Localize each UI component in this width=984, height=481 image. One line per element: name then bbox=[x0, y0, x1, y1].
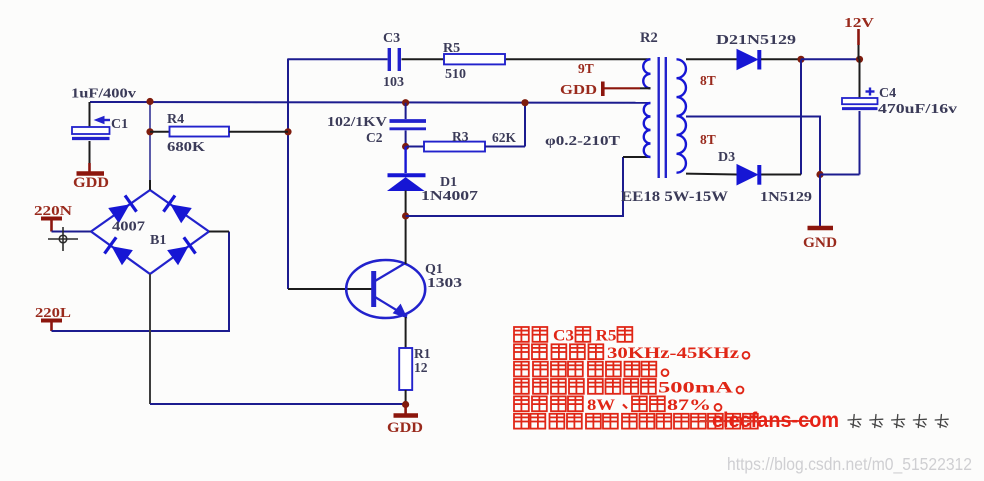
wire top rail R5 to transformer bbox=[505, 58, 650, 60]
svg-text:D21N5129: D21N5129 bbox=[716, 33, 796, 48]
svg-text:470uF/16v: 470uF/16v bbox=[878, 102, 957, 117]
port 220N stem bbox=[50, 220, 53, 232]
ground GDD tap wire bbox=[604, 87, 640, 89]
svg-text:220N: 220N bbox=[34, 203, 72, 218]
svg-text:500mA: 500mA bbox=[658, 380, 734, 397]
resistor R1 body bbox=[399, 348, 412, 390]
note line2 bbox=[514, 344, 529, 359]
node dot C2 top bbox=[402, 99, 409, 106]
capacitor C3 plate left bbox=[388, 48, 391, 71]
svg-text:R5: R5 bbox=[443, 41, 460, 56]
wire D3 out to tie bbox=[761, 174, 801, 176]
transformer core line left bbox=[658, 57, 660, 178]
ground GDD Q1 bar bbox=[394, 413, 419, 418]
transistor Q1 collector diag bbox=[375, 264, 405, 282]
resistor R4 wire right bbox=[229, 131, 288, 133]
wire top node to bridge bbox=[149, 101, 151, 190]
svg-text:C4: C4 bbox=[879, 86, 896, 101]
svg-text:B1: B1 bbox=[150, 233, 166, 248]
svg-text:9T: 9T bbox=[578, 61, 594, 76]
transistor Q1 base bar bbox=[371, 271, 376, 307]
node dot R4 right bbox=[284, 128, 291, 135]
svg-text:GDD: GDD bbox=[73, 175, 109, 191]
svg-text:30KHz-45KHz: 30KHz-45KHz bbox=[607, 345, 739, 362]
diode D1 wire top bbox=[404, 147, 406, 174]
wire top rail left bbox=[288, 58, 388, 60]
note line3 bbox=[514, 362, 529, 377]
bridge diode D bottom-left bbox=[112, 247, 132, 264]
note line5 bbox=[514, 396, 529, 411]
wire gnd drop bbox=[819, 175, 821, 228]
transformer primary winding lower bbox=[644, 103, 651, 157]
wire 12V rail bbox=[801, 58, 860, 60]
wire C2 to D1 node bbox=[405, 131, 407, 147]
node dot bottom bbox=[402, 401, 409, 408]
wire top rail C3-R5 bbox=[402, 58, 445, 60]
node dot R3 left bbox=[402, 143, 409, 150]
node dot R3 top bbox=[521, 99, 528, 106]
capacitor C1 stub top bbox=[89, 102, 91, 127]
diode D1 triangle bbox=[389, 178, 424, 191]
node dot D1 bottom bbox=[402, 212, 409, 219]
svg-text:87%: 87% bbox=[667, 397, 711, 414]
wire bottom rail bbox=[150, 403, 406, 405]
capacitor C3 plate right bbox=[398, 48, 401, 71]
diode D3 triangle bbox=[737, 165, 758, 185]
capacitor C4 polarity bbox=[866, 90, 875, 92]
wire 12V to node bbox=[858, 45, 860, 59]
wire cathode tie vertical bbox=[800, 59, 802, 174]
svg-text:Q1: Q1 bbox=[425, 262, 443, 277]
resistor R5 body bbox=[444, 54, 505, 64]
svg-text:GND: GND bbox=[803, 235, 837, 251]
svg-text:8T: 8T bbox=[700, 73, 716, 88]
svg-text:elecfans-com: elecfans-com bbox=[712, 408, 839, 432]
capacitor C2 plate bottom bbox=[390, 127, 427, 130]
wire bridge bottom drop bbox=[149, 274, 151, 404]
svg-text:510: 510 bbox=[445, 67, 466, 82]
svg-text:103: 103 bbox=[383, 75, 404, 90]
transistor Q1 emitter arrow bbox=[394, 305, 407, 318]
capacitor C1 plate- bbox=[72, 137, 110, 140]
bridge diode D top-right bbox=[171, 205, 191, 222]
capacitor C4 wire top bbox=[859, 59, 861, 98]
wire primary bottom stub bbox=[623, 156, 650, 158]
diode D3 cathode bar bbox=[757, 165, 761, 185]
wire 220L run bbox=[52, 232, 230, 332]
wire mid rail C1 to transformer bbox=[90, 101, 650, 104]
wire 220N to bridge bbox=[52, 231, 92, 233]
cursor crosshair bbox=[48, 238, 78, 240]
resistor R4 wire left bbox=[150, 131, 170, 133]
svg-text:C3: C3 bbox=[553, 328, 574, 345]
svg-text:https://blog.csdn.net/m0_51522: https://blog.csdn.net/m0_51522312 bbox=[727, 454, 972, 475]
svg-text:62K: 62K bbox=[492, 130, 517, 145]
capacitor C2 plate top bbox=[390, 119, 427, 123]
diode D2 cathode bar bbox=[757, 50, 761, 70]
resistor R3 body bbox=[424, 142, 485, 152]
svg-text:R5: R5 bbox=[596, 328, 617, 345]
resistor R3 vertical bbox=[524, 103, 526, 147]
ground GDD Q1 stem bbox=[404, 405, 407, 415]
capacitor C4 plate- bbox=[842, 107, 878, 110]
wire secondary top to D2 bbox=[686, 58, 737, 60]
node dot R4 left bbox=[146, 128, 153, 135]
svg-text:220L: 220L bbox=[35, 305, 71, 320]
wire Q1 collector up bbox=[405, 216, 407, 264]
node dot D2 out bbox=[797, 56, 804, 63]
wire C4 bottom run bbox=[820, 174, 860, 176]
svg-text:4007: 4007 bbox=[112, 220, 145, 235]
note line6 bbox=[514, 414, 529, 429]
wire secondary bottom to D3 bbox=[686, 173, 737, 176]
ground GND bar bbox=[808, 226, 834, 231]
bridge B1 outline bbox=[91, 190, 209, 274]
node dot center tap bbox=[816, 171, 823, 178]
resistor R4 body bbox=[170, 127, 230, 137]
capacitor C4 wire bottom bbox=[859, 111, 861, 175]
svg-text:C3: C3 bbox=[383, 31, 400, 46]
svg-text:GDD: GDD bbox=[387, 420, 423, 436]
wire bridge top stub bbox=[149, 180, 151, 190]
svg-text:φ0.2-210T: φ0.2-210T bbox=[545, 133, 620, 148]
transistor Q1 emitter diag bbox=[375, 297, 407, 317]
node dot C4 top bbox=[856, 56, 863, 63]
port 220L stem bbox=[50, 322, 53, 331]
svg-text:8T: 8T bbox=[700, 132, 716, 147]
resistor R3 wire left bbox=[406, 146, 424, 148]
transistor Q1 circle bbox=[346, 260, 425, 318]
wire feedback rail bbox=[406, 157, 623, 216]
resistor R3 wire right bbox=[485, 146, 525, 148]
wire center tap bbox=[686, 117, 820, 175]
wire bridge right stub bbox=[209, 231, 229, 233]
svg-text:1N5129: 1N5129 bbox=[760, 190, 812, 205]
svg-text:D3: D3 bbox=[718, 150, 735, 165]
svg-text:C1: C1 bbox=[111, 117, 128, 132]
capacitor C2 stub bbox=[405, 103, 407, 119]
bridge diode D top-left bbox=[109, 205, 129, 222]
capacitor C1 plate+ bbox=[72, 127, 110, 134]
svg-text:C2: C2 bbox=[366, 130, 383, 145]
port 220L bar bbox=[41, 319, 62, 323]
diode D2 triangle bbox=[737, 50, 758, 70]
watermark strike bbox=[700, 420, 812, 422]
wire Q1 emitter down bbox=[405, 317, 407, 348]
port 12V stem bbox=[857, 29, 860, 45]
ground GDD C1 bar bbox=[77, 171, 105, 176]
capacitor C1 polarity arrow bbox=[95, 117, 104, 124]
svg-text:102/1KV: 102/1KV bbox=[327, 114, 387, 129]
svg-text:12V: 12V bbox=[844, 16, 874, 31]
capacitor C1 stub bottom bbox=[89, 141, 91, 163]
svg-text:GDD: GDD bbox=[560, 83, 597, 98]
port 220N bar bbox=[41, 217, 62, 221]
note line4 bbox=[514, 379, 529, 394]
svg-text:EE18 5W-15W: EE18 5W-15W bbox=[621, 189, 729, 205]
bridge diode D bottom-right bbox=[168, 247, 188, 264]
ground GDD C1 stem bbox=[88, 163, 91, 172]
transformer primary winding 9T bbox=[643, 59, 650, 88]
svg-text:R1: R1 bbox=[414, 346, 431, 361]
svg-text:1uF/400v: 1uF/400v bbox=[71, 86, 136, 101]
watermark cjk brand bbox=[848, 415, 861, 428]
svg-text:8W: 8W bbox=[587, 397, 615, 414]
wire R1 to ground bbox=[405, 390, 407, 404]
transformer core line right bbox=[665, 57, 667, 178]
note line1 bbox=[514, 327, 529, 342]
ground GDD tap bar bbox=[601, 82, 605, 97]
capacitor C4 plate+ bbox=[842, 98, 878, 104]
wire base Q1 bbox=[288, 288, 372, 290]
wire D2 to node bbox=[761, 58, 801, 60]
diode D1 cathode bar bbox=[388, 173, 426, 177]
transformer secondary winding bottom 8T bbox=[677, 116, 686, 173]
svg-text:D1: D1 bbox=[440, 175, 457, 190]
wire vertical feedback x288 bbox=[287, 59, 289, 290]
svg-text:R3: R3 bbox=[452, 129, 469, 144]
transformer secondary winding top 8T bbox=[677, 59, 686, 116]
diode D1 wire bottom bbox=[405, 191, 407, 217]
svg-text:1303: 1303 bbox=[427, 276, 462, 291]
svg-text:680K: 680K bbox=[167, 140, 205, 155]
svg-text:12: 12 bbox=[414, 360, 428, 375]
node dot C1 rail bbox=[146, 98, 153, 105]
svg-text:R4: R4 bbox=[167, 112, 184, 127]
svg-text:R2: R2 bbox=[640, 30, 658, 46]
svg-text:1N4007: 1N4007 bbox=[421, 189, 478, 204]
